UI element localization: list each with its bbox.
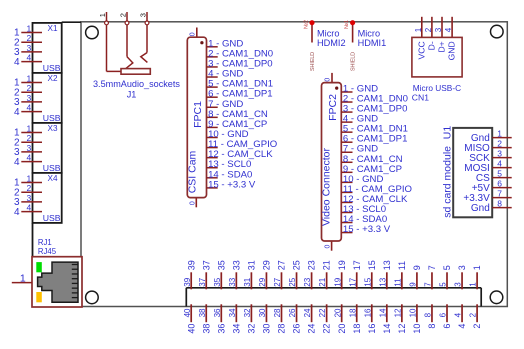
svg-text:FPC1: FPC1 [192,101,204,128]
svg-text:3: 3 [26,93,31,103]
svg-text:12: 12 [393,308,402,317]
svg-text:X3: X3 [48,124,58,133]
svg-text:sd card module: sd card module [441,146,453,218]
svg-text:5: 5 [497,168,502,178]
svg-text:SHIELD: SHIELD [310,52,316,71]
svg-text:34: 34 [231,324,241,334]
svg-text:13: 13 [382,260,392,270]
svg-text:14: 14 [378,308,387,317]
svg-text:8: 8 [427,324,437,329]
svg-text:20: 20 [333,308,342,317]
svg-text:8: 8 [497,198,502,208]
svg-text:№1: №1 [344,20,350,29]
svg-text:5: 5 [442,265,452,270]
svg-text:GND: GND [447,41,457,60]
svg-text:X4: X4 [48,174,58,183]
svg-text:3.5mmAudio_sockets: 3.5mmAudio_sockets [93,79,180,89]
svg-text:13: 13 [378,277,387,286]
svg-text:19: 19 [333,277,342,286]
svg-text:15 - +3.3 V: 15 - +3.3 V [208,179,256,190]
svg-text:10: 10 [409,308,418,317]
svg-text:39: 39 [183,277,192,286]
svg-text:17: 17 [348,277,357,286]
svg-text:11: 11 [393,278,402,287]
svg-text:X1: X1 [48,24,58,33]
svg-text:7: 7 [497,188,502,198]
svg-text:Gnd: Gnd [471,203,490,214]
svg-text:1: 1 [497,128,502,138]
svg-text:40: 40 [183,308,192,317]
svg-text:3: 3 [26,143,31,153]
svg-text:36: 36 [213,308,222,317]
svg-text:RJ45: RJ45 [38,247,57,256]
svg-text:17: 17 [352,260,362,270]
svg-text:4: 4 [26,53,31,63]
svg-text:Video Connector: Video Connector [321,147,333,226]
svg-text:0: 0 [325,78,332,82]
svg-text:D-: D- [426,41,436,50]
svg-text:4: 4 [14,107,20,118]
svg-text:27: 27 [273,277,282,286]
svg-text:12: 12 [397,324,407,334]
svg-text:FPC2: FPC2 [327,94,339,121]
svg-text:15: 15 [363,277,372,286]
svg-text:3: 3 [454,282,463,287]
svg-text:3: 3 [457,265,467,270]
svg-text:1: 1 [414,27,423,32]
svg-text:15: 15 [367,260,377,270]
svg-text:15 - +3.3 V: 15 - +3.3 V [343,224,391,235]
svg-text:7: 7 [424,282,433,287]
svg-text:3: 3 [139,13,148,17]
svg-text:USB: USB [43,163,61,173]
svg-text:25: 25 [288,277,297,286]
svg-text:6: 6 [442,324,452,329]
svg-text:23: 23 [303,277,312,286]
svg-text:23: 23 [307,260,317,270]
svg-text:29: 29 [258,277,267,286]
svg-text:3: 3 [26,43,31,53]
svg-text:U1: U1 [441,126,453,140]
svg-text:31: 31 [246,260,256,270]
svg-text:4: 4 [26,153,31,163]
svg-text:6: 6 [439,312,448,317]
svg-text:1: 1 [472,265,482,270]
svg-text:USB: USB [43,63,61,73]
svg-text:4: 4 [14,57,20,68]
svg-text:7: 7 [427,265,437,270]
svg-text:4: 4 [497,158,502,168]
svg-text:18: 18 [352,324,362,334]
svg-text:32: 32 [243,308,252,317]
svg-text:HDMI1: HDMI1 [358,38,387,48]
svg-text:34: 34 [228,308,237,317]
svg-text:25: 25 [292,260,302,270]
svg-text:2: 2 [26,133,31,143]
svg-text:1: 1 [20,273,26,285]
svg-text:X2: X2 [48,74,58,83]
svg-text:16: 16 [363,308,372,317]
svg-text:24: 24 [307,324,317,334]
svg-text:№2: №2 [303,20,309,29]
svg-text:2: 2 [424,27,433,32]
svg-text:1: 1 [26,74,31,84]
svg-text:30: 30 [262,324,272,334]
svg-text:0: 0 [190,32,197,36]
svg-text:37: 37 [201,260,211,270]
svg-text:4: 4 [26,203,31,213]
svg-text:2: 2 [119,13,128,17]
svg-text:33: 33 [228,277,237,286]
svg-text:21: 21 [318,277,327,286]
svg-text:22: 22 [318,308,327,317]
svg-text:9: 9 [412,265,422,270]
svg-text:11: 11 [397,261,407,270]
svg-text:1: 1 [98,13,107,17]
svg-text:19: 19 [337,260,347,270]
svg-text:HDMI2: HDMI2 [317,38,346,48]
svg-text:28: 28 [273,308,282,317]
svg-text:35: 35 [213,277,222,286]
svg-text:3: 3 [434,27,443,32]
svg-text:31: 31 [243,277,252,286]
svg-text:22: 22 [322,324,332,334]
svg-text:2: 2 [26,83,31,93]
svg-text:24: 24 [303,308,312,317]
svg-text:18: 18 [348,308,357,317]
svg-text:2: 2 [497,138,502,148]
svg-text:4: 4 [26,103,31,113]
svg-text:2: 2 [26,183,31,193]
svg-text:1: 1 [469,282,478,287]
svg-text:CN1: CN1 [412,92,429,102]
svg-text:4: 4 [444,27,453,32]
svg-text:4: 4 [14,207,20,218]
svg-text:4: 4 [454,312,463,317]
svg-text:28: 28 [277,324,287,334]
svg-text:16: 16 [367,324,377,334]
svg-text:2: 2 [469,312,478,317]
svg-text:USB: USB [43,213,61,223]
svg-text:14: 14 [382,324,392,334]
svg-text:VCC: VCC [416,41,426,59]
svg-text:20: 20 [337,324,347,334]
svg-text:3: 3 [497,148,502,158]
svg-text:10: 10 [412,324,422,334]
svg-text:6: 6 [497,178,502,188]
svg-text:D+: D+ [437,41,447,52]
svg-text:USB: USB [43,113,61,123]
svg-text:27: 27 [277,260,287,270]
svg-text:4: 4 [457,324,467,329]
svg-text:9: 9 [409,282,418,287]
svg-text:3: 3 [26,193,31,203]
svg-text:4: 4 [14,157,20,168]
svg-text:35: 35 [216,260,226,270]
svg-text:RJ1: RJ1 [38,238,52,247]
svg-text:38: 38 [201,324,211,334]
svg-text:39: 39 [186,260,196,270]
svg-text:SHIELD: SHIELD [351,52,357,71]
svg-text:32: 32 [246,324,256,334]
svg-text:1: 1 [26,24,31,34]
svg-text:2: 2 [26,33,31,43]
svg-text:CSI Cam: CSI Cam [186,150,198,193]
svg-text:8: 8 [424,312,433,317]
svg-text:33: 33 [231,260,241,270]
svg-text:J1: J1 [127,90,137,100]
svg-text:30: 30 [258,308,267,317]
svg-text:21: 21 [322,260,332,270]
svg-text:37: 37 [198,277,207,286]
svg-text:38: 38 [198,308,207,317]
svg-text:1: 1 [26,124,31,134]
svg-text:26: 26 [292,324,302,334]
svg-text:40: 40 [186,324,196,334]
svg-text:5: 5 [439,282,448,287]
svg-text:0: 0 [325,245,332,249]
svg-text:2: 2 [472,324,482,329]
svg-text:26: 26 [288,308,297,317]
svg-text:1: 1 [26,174,31,184]
svg-text:36: 36 [216,324,226,334]
svg-text:0: 0 [189,201,196,205]
svg-text:29: 29 [262,260,272,270]
